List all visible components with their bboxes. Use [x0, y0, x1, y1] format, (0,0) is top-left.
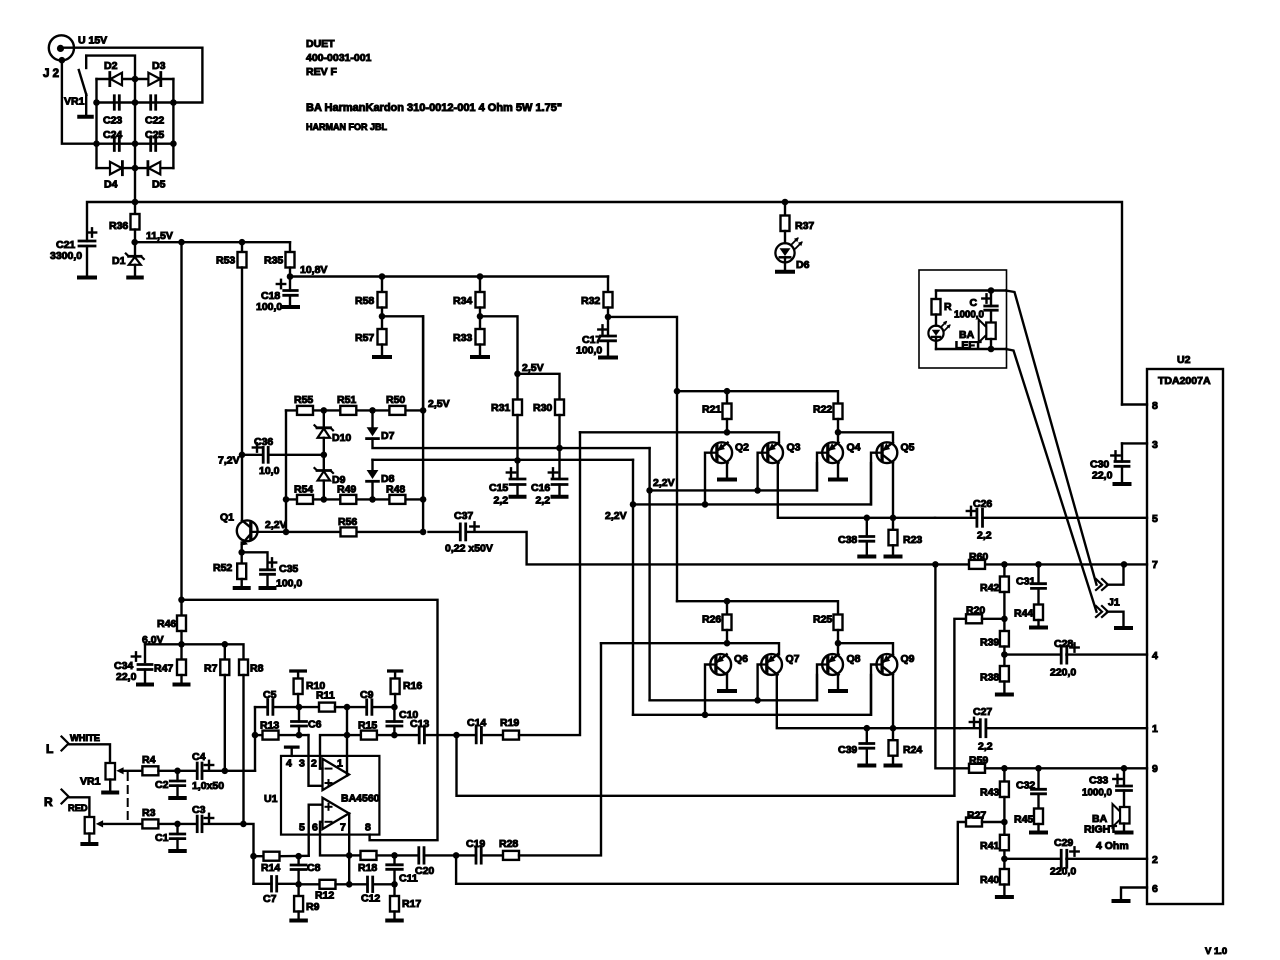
resistor R14: [264, 852, 280, 861]
node 6,0V: [178, 641, 185, 648]
node C6 bottom: [296, 732, 303, 739]
wire R3 to C3: [158, 823, 197, 825]
node R10 bottom: [296, 704, 303, 711]
transistor Q9: [876, 654, 897, 675]
wire switch to diode bridge top: [86, 56, 135, 79]
resistor R23: [889, 518, 898, 555]
wire R54 R49 R48 rail: [286, 498, 423, 500]
ground of R38: [997, 693, 1012, 697]
resistor R42: [1000, 564, 1009, 618]
value 1,0x50: [192, 780, 224, 792]
wire R58 node to 2,5V column: [382, 316, 423, 410]
svg-text:R46: R46: [157, 618, 176, 630]
svg-text:R26: R26: [702, 614, 721, 626]
label R37: [795, 220, 814, 232]
svg-text:R44: R44: [1014, 608, 1033, 620]
svg-text:R9: R9: [306, 901, 320, 913]
label C21: [56, 239, 75, 251]
svg-text:R20: R20: [966, 605, 985, 617]
svg-text:R49: R49: [337, 484, 356, 496]
resistor R20: [954, 614, 1004, 796]
label C37: [454, 510, 473, 522]
label D3: [152, 60, 166, 72]
resistor R49: [340, 495, 356, 504]
pin 1 of U2: [1152, 723, 1158, 735]
resistor R50: [389, 406, 405, 415]
resistor R47: [177, 644, 186, 682]
label C31: [1016, 576, 1035, 588]
label C3: [192, 804, 206, 816]
svg-text:D1: D1: [112, 255, 126, 267]
wire Q6 collector: [726, 674, 728, 689]
label C27: [973, 706, 992, 718]
node D10 top: [321, 407, 328, 414]
svg-text:R50: R50: [386, 394, 405, 406]
svg-text:R12: R12: [315, 890, 334, 902]
wire top supply rail: [87, 202, 1122, 405]
wire 7,2V to Q1: [241, 455, 243, 521]
capacitor C35: [242, 552, 277, 586]
capacitor C10: [387, 707, 402, 735]
wire speaker diagonal 2: [1006, 349, 1097, 612]
svg-text:7,2V: 7,2V: [218, 455, 240, 467]
pin 8 label: [365, 822, 371, 834]
label C39: [838, 744, 857, 756]
power tap of R10: [291, 671, 306, 679]
wire R25 node to Q9: [838, 643, 893, 654]
svg-text:R59: R59: [969, 755, 988, 767]
label R48: [386, 484, 405, 496]
svg-text:C37: C37: [454, 510, 473, 522]
svg-text:VR1: VR1: [64, 96, 85, 108]
capacitor C39: [860, 728, 874, 763]
pin 2 of U2: [1152, 854, 1158, 866]
transistor Q7: [761, 654, 782, 675]
resistor R37: [781, 202, 790, 243]
svg-text:7: 7: [340, 822, 346, 834]
label R30: [533, 402, 552, 414]
label R16: [403, 680, 422, 692]
ground of C34: [138, 683, 152, 687]
capacitor C in box: [982, 291, 997, 323]
svg-text:D10: D10: [332, 432, 351, 444]
svg-text:8: 8: [1152, 400, 1158, 412]
svg-text:100,0: 100,0: [256, 301, 282, 313]
label R45: [1014, 814, 1033, 826]
node R7 top: [222, 641, 229, 648]
label C35: [279, 563, 298, 575]
label R57: [355, 332, 374, 344]
label D2: [104, 60, 118, 72]
node R25 bottom: [835, 640, 842, 647]
svg-text:2,2V: 2,2V: [605, 510, 627, 522]
label R28: [499, 838, 518, 850]
ground of C1: [170, 849, 185, 853]
speaker BA LEFT: [979, 320, 996, 350]
label 11,5V: [146, 230, 173, 242]
wire speaker diagonal 1: [1006, 291, 1097, 585]
ground of R52: [235, 586, 249, 590]
svg-text:R27: R27: [967, 810, 986, 822]
value 22,0: [116, 671, 137, 683]
wire bridge output down: [134, 168, 136, 202]
resistor R34: [476, 277, 485, 317]
ground of Q6: [719, 689, 735, 693]
label R34: [453, 295, 472, 307]
svg-text:3300,0: 3300,0: [50, 250, 82, 262]
svg-text:C36: C36: [254, 436, 273, 448]
label D10: [332, 432, 351, 444]
node rail junctions: [132, 199, 789, 206]
label VR1: [80, 776, 101, 788]
ground of R40: [997, 895, 1012, 899]
resistor R28: [503, 851, 519, 860]
wire Q9 collector: [892, 674, 894, 729]
label C15: [489, 482, 508, 494]
svg-text:D7: D7: [381, 430, 395, 442]
wire left ladder column: [285, 410, 287, 532]
label R36: [109, 220, 128, 232]
svg-text:9: 9: [1152, 763, 1158, 775]
svg-text:J1: J1: [1108, 597, 1120, 609]
wire output B: [348, 813, 350, 884]
svg-text:22,0: 22,0: [1092, 470, 1113, 482]
label C34: [114, 660, 133, 672]
capacitor C22: [151, 96, 156, 110]
pin 2 label: [311, 758, 317, 770]
wire Q3 base drop: [758, 453, 762, 491]
node 2,5V upper: [514, 371, 521, 378]
wire bias rail to pin8 column: [182, 600, 438, 840]
svg-text:R19: R19: [500, 717, 519, 729]
svg-text:10,0: 10,0: [259, 465, 280, 477]
svg-text:R: R: [944, 301, 952, 313]
label BA4560: [341, 793, 380, 805]
resistor R4: [142, 766, 158, 775]
label C11: [399, 873, 418, 885]
svg-text:HARMAN FOR JBL: HARMAN FOR JBL: [306, 122, 387, 132]
svg-text:C19: C19: [466, 838, 485, 850]
resistor R54: [297, 495, 313, 504]
label R15: [358, 720, 377, 732]
label R31: [491, 402, 510, 414]
node C9 right: [391, 704, 398, 711]
label BA in box: [959, 329, 975, 341]
wire C26 left: [935, 517, 977, 519]
wire D8 rail down: [632, 460, 634, 715]
resistor R52: [237, 552, 246, 586]
node C19 node: [453, 852, 460, 859]
wire R55 R51 R50 rail: [286, 409, 423, 411]
svg-text:R48: R48: [386, 484, 405, 496]
node R59 column top: [932, 561, 939, 568]
title text part number: [306, 52, 372, 64]
resistor R21: [723, 391, 732, 432]
label R46: [157, 618, 176, 630]
label C13: [410, 718, 429, 730]
label 10,8V: [300, 264, 327, 276]
capacitor C31: [1032, 564, 1046, 604]
svg-text:C13: C13: [410, 718, 429, 730]
svg-text:L: L: [46, 742, 53, 756]
node R53 top: [178, 239, 245, 246]
node 2,2V right a: [646, 487, 653, 494]
capacitor C32: [1032, 768, 1046, 808]
resistor R55: [297, 406, 313, 415]
wire R26 R25 top rail: [677, 601, 838, 614]
wire Q6 base drop: [705, 665, 710, 715]
svg-text:6: 6: [1152, 883, 1158, 895]
connector J2: [49, 35, 74, 63]
wire pin6 path: [320, 822, 349, 856]
label D4: [104, 179, 118, 191]
node below R32: [605, 314, 612, 321]
svg-text:C2: C2: [155, 779, 169, 791]
ground of Q2: [719, 478, 735, 482]
label R19: [500, 717, 519, 729]
wire C3 node to R14 rail: [243, 824, 253, 884]
svg-text:R4: R4: [142, 754, 156, 766]
label R25: [813, 614, 832, 626]
diode D5: [148, 162, 160, 175]
svg-text:2,2V: 2,2V: [265, 519, 287, 531]
wire R11 to output node: [335, 706, 347, 708]
ground of switch VR1: [79, 115, 92, 119]
label R40: [980, 874, 999, 886]
svg-text:BA HarmanKardon 310-0012-: BA HarmanKardon 310-0012-001 4 Ohm 5W 1.…: [306, 102, 562, 114]
svg-text:R37: R37: [795, 220, 814, 232]
power tap of pin4: [286, 747, 299, 756]
wire pin5 path: [309, 805, 322, 856]
label C25: [145, 129, 164, 141]
wire pin2 rail: [320, 735, 457, 769]
label Q7: [786, 653, 800, 665]
ground of speaker: [1117, 831, 1132, 835]
label C19: [466, 838, 485, 850]
pin 4 label: [286, 758, 292, 770]
wire C14 node to R20 rail: [457, 735, 955, 796]
svg-text:R54: R54: [294, 484, 313, 496]
label J1: [1108, 597, 1120, 609]
ground of C35: [261, 586, 275, 590]
op-amp B of U1: [323, 798, 350, 829]
wire output A: [346, 707, 348, 775]
label 2,5V upper: [522, 362, 544, 374]
label Q8: [847, 653, 861, 665]
capacitor C18: [277, 277, 297, 306]
node R23 top: [890, 515, 897, 522]
connector J1 top contact: [1096, 564, 1124, 590]
wire C4 node up to R13 rail: [254, 735, 256, 771]
wire Q8 base drop: [817, 665, 822, 701]
transistor Q1: [237, 520, 286, 545]
label R38: [980, 672, 999, 684]
resistor R48: [389, 495, 405, 504]
svg-text:TDA2007A: TDA2007A: [1158, 375, 1211, 387]
wire 6V rail: [145, 644, 244, 662]
wire base rail Q7 Q8: [633, 675, 871, 715]
value 1000,0 in box: [954, 310, 985, 321]
label R33: [453, 332, 472, 344]
label C9: [360, 689, 374, 701]
svg-text:2,5V: 2,5V: [428, 398, 450, 410]
wiper of VR1 left: [116, 767, 142, 774]
label VR1 switch: [64, 96, 85, 108]
connector L jack: [62, 737, 111, 764]
svg-text:R31: R31: [491, 402, 510, 414]
svg-text:5: 5: [1152, 513, 1158, 525]
svg-text:C24: C24: [103, 129, 122, 141]
svg-text:C1: C1: [155, 832, 169, 844]
label R27: [967, 810, 986, 822]
label C5: [263, 689, 277, 701]
node C15 top: [514, 457, 521, 464]
capacitor C29: [1061, 847, 1079, 867]
value 2,2: [977, 530, 992, 542]
svg-text:R43: R43: [980, 787, 999, 799]
svg-text:V 1.0: V 1.0: [1205, 946, 1227, 957]
resistor R11: [319, 703, 335, 712]
label Q9: [901, 653, 915, 665]
resistor R12: [299, 880, 350, 889]
wire R13 input rail: [255, 734, 309, 736]
value 2,2 of C16: [536, 495, 551, 507]
node R24 top: [890, 725, 897, 732]
ground of R57: [374, 355, 390, 359]
svg-text:2,2: 2,2: [978, 741, 993, 753]
node D7 top: [369, 407, 376, 414]
wire Q5 base drop: [871, 453, 876, 505]
svg-text:1000,0: 1000,0: [1082, 788, 1113, 799]
node R21 R22 rail: [674, 388, 731, 395]
resistor R44: [1034, 605, 1043, 626]
node R26 top: [724, 598, 731, 605]
resistor R8: [239, 660, 248, 824]
node R14 left: [250, 853, 257, 860]
capacitor C21: [79, 228, 96, 275]
transistor Q3: [762, 442, 783, 463]
svg-text:R18: R18: [358, 862, 377, 874]
resistor R45: [1034, 809, 1043, 831]
wire Q1 emitter down: [240, 543, 242, 553]
node R27 right: [1001, 819, 1008, 826]
node Q3 base: [754, 487, 761, 494]
svg-text:C33: C33: [1089, 775, 1108, 787]
wire Q2 collector: [726, 462, 728, 478]
ground of VR1 right: [82, 842, 96, 846]
potentiometer VR1 left: [106, 763, 116, 791]
label R53: [216, 255, 235, 267]
capacitor C6: [292, 707, 307, 735]
label C12: [361, 893, 380, 905]
resistor R53: [238, 242, 247, 455]
zener diode D10: [315, 410, 334, 454]
ground of C16: [553, 495, 567, 499]
svg-text:2,2: 2,2: [536, 495, 551, 507]
label R24: [903, 744, 922, 756]
resistor R13: [263, 731, 279, 740]
version text V 1.0: [1205, 946, 1227, 957]
wire pin3 drop: [309, 735, 322, 786]
svg-text:C3: C3: [192, 804, 206, 816]
title text revision: [306, 66, 338, 78]
svg-text:7: 7: [1152, 559, 1158, 571]
label D5: [152, 179, 166, 191]
ground of C18: [282, 305, 298, 309]
node C11 top: [391, 852, 398, 859]
wire Q6 Q7 bias rail: [601, 643, 779, 654]
resistor R22: [834, 404, 843, 443]
label RED: [68, 803, 88, 813]
svg-text:D5: D5: [152, 179, 166, 191]
pin 3 of U2: [1122, 439, 1158, 451]
node R22 bottom: [835, 429, 842, 436]
wire R22 node to Q5: [838, 432, 893, 442]
wire R32 node right and down: [608, 317, 677, 601]
label 4 Ohm: [1096, 840, 1129, 852]
label C17: [582, 334, 601, 346]
svg-text:VR1: VR1: [80, 776, 101, 788]
capacitor C9: [347, 700, 394, 715]
node C14 node: [453, 732, 460, 739]
svg-text:C26: C26: [973, 498, 992, 510]
resistor R35: [286, 242, 295, 276]
label R22: [813, 404, 832, 416]
label R39: [980, 637, 999, 649]
value 2,2 of C15: [494, 495, 509, 507]
svg-text:2: 2: [1152, 854, 1158, 866]
zener diode D9: [315, 455, 334, 500]
label C8: [307, 862, 321, 874]
capacitor C8: [291, 856, 306, 884]
resistor R7: [220, 644, 229, 771]
capacitor C36: [242, 443, 324, 462]
value 100,0: [276, 578, 302, 590]
svg-text:R58: R58: [355, 295, 374, 307]
transistor Q4: [822, 442, 843, 463]
pin 7 of U2: [1152, 559, 1158, 571]
label R20: [966, 605, 985, 617]
svg-text:R42: R42: [980, 582, 999, 594]
transistor Q8: [822, 654, 843, 675]
pin 6 label: [312, 822, 318, 834]
svg-text:R24: R24: [903, 744, 922, 756]
svg-text:Q4: Q4: [847, 442, 861, 454]
node Q1 emitter: [238, 549, 245, 556]
svg-text:8: 8: [365, 822, 371, 834]
value 22,0: [1092, 470, 1113, 482]
svg-text:2,2: 2,2: [494, 495, 509, 507]
node R54 left: [283, 496, 290, 503]
capacitor C11: [387, 855, 403, 884]
capacitor C13: [419, 727, 424, 743]
svg-text:REV F: REV F: [306, 66, 338, 78]
LED D6: [775, 237, 802, 270]
label 2,2V at Q1: [265, 519, 287, 531]
label C26: [973, 498, 992, 510]
capacitor C14: [457, 727, 504, 743]
svg-text:R11: R11: [316, 690, 335, 702]
node R13 left: [252, 732, 259, 739]
svg-text:1000,0: 1000,0: [954, 310, 985, 321]
node 10,8V: [287, 273, 294, 280]
svg-text:RIGHT: RIGHT: [1084, 824, 1117, 836]
svg-text:4 Ohm: 4 Ohm: [1096, 840, 1129, 852]
svg-text:C4: C4: [192, 751, 206, 763]
node output A top: [344, 704, 351, 711]
wire bridge frame: [97, 79, 174, 168]
label R51: [337, 394, 356, 406]
